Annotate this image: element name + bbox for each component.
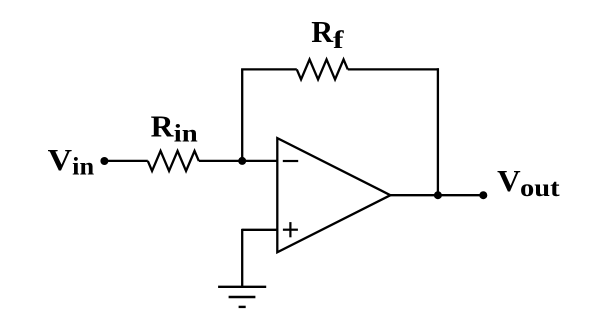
resistor Rf	[297, 59, 348, 79]
junction: output node	[434, 191, 442, 199]
wire feedback right vertical	[437, 68, 439, 195]
svg-text:R: R	[151, 109, 174, 144]
op-amp non-inverting pin mark (plus)	[283, 222, 298, 237]
wire feedback top left	[241, 68, 297, 70]
svg-text:f: f	[333, 27, 344, 54]
wire feedback left vertical	[241, 69, 243, 160]
op-amp U1	[277, 138, 390, 252]
op-amp inverting pin mark (minus)	[283, 160, 298, 162]
svg-text:in: in	[174, 121, 198, 148]
junction: inverting input node	[238, 157, 246, 165]
wire Rin to inverting input	[199, 160, 277, 162]
wire Vin to Rin	[104, 160, 147, 162]
label Vout	[497, 163, 560, 202]
svg-text:in: in	[72, 154, 94, 181]
node Vin terminal	[100, 157, 108, 165]
ground	[218, 287, 266, 307]
svg-text:V: V	[48, 142, 73, 177]
label Vin	[48, 142, 95, 181]
wire feedback top right	[348, 68, 439, 70]
node Vout terminal	[479, 191, 487, 199]
label Rf	[311, 14, 344, 54]
wire ground drop	[241, 229, 243, 287]
resistor Rin	[148, 151, 199, 171]
svg-text:out: out	[520, 175, 560, 202]
label Rin	[151, 109, 198, 148]
svg-text:V: V	[497, 163, 521, 198]
wire non-inverting input	[242, 229, 277, 231]
svg-text:R: R	[311, 14, 333, 49]
wire output	[390, 194, 484, 196]
